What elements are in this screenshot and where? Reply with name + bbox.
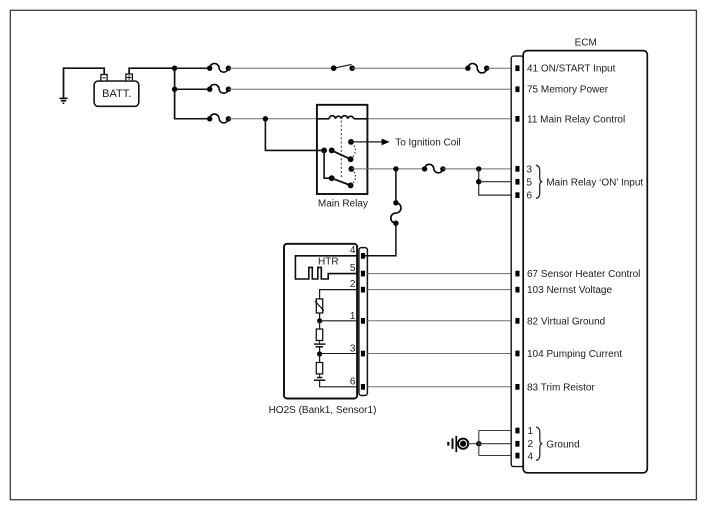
ECM box bbox=[523, 51, 647, 473]
resistor R3 bbox=[316, 354, 322, 374]
resistor R2 bbox=[316, 321, 322, 341]
relay contact pivot node B1 bbox=[329, 148, 335, 154]
svg-text:82 Virtual Ground: 82 Virtual Ground bbox=[527, 316, 605, 327]
svg-text:5: 5 bbox=[527, 177, 533, 188]
relay switch S2 blade bbox=[332, 178, 351, 185]
relay armature dashed link bbox=[340, 121, 342, 178]
wire HO2S pin 3 to ECM pin 104 bbox=[367, 353, 516, 355]
node D relay output junction bbox=[393, 166, 398, 171]
cell B2 plates bbox=[314, 374, 326, 380]
relay switch S2 dashed travel arc bbox=[351, 169, 356, 186]
svg-text:67 Sensor Heater Control: 67 Sensor Heater Control bbox=[527, 269, 640, 280]
svg-text:BATT.: BATT. bbox=[102, 88, 131, 100]
svg-text:1: 1 bbox=[350, 311, 356, 322]
wire ignition switch to fuse F4 bbox=[352, 67, 468, 69]
wire node F to ECM pin 5 bbox=[479, 181, 517, 183]
relay contact common node A1 bbox=[321, 148, 327, 154]
HO2S pin numbers bbox=[350, 245, 356, 388]
svg-text:1: 1 bbox=[528, 426, 534, 437]
svg-text:2: 2 bbox=[528, 439, 534, 450]
wire node D down to fuse F6 bbox=[395, 169, 397, 203]
fuse F4 bbox=[465, 63, 489, 72]
fuse F2 bbox=[207, 84, 231, 93]
wire ground to ECM pin 4 bbox=[479, 455, 517, 457]
wire relay output to fuse F5 bbox=[351, 168, 424, 170]
wire contact D1 to arrow bbox=[351, 141, 382, 143]
node B bbox=[172, 87, 177, 92]
svg-text:To Ignition Coil: To Ignition Coil bbox=[395, 138, 461, 149]
battery BATT. bbox=[94, 74, 139, 106]
HO2S pin squares bbox=[361, 253, 365, 390]
wire relay coil to ECM pin 11 bbox=[367, 118, 516, 120]
fuse F5 bbox=[422, 164, 446, 173]
wire HO2S pin 5 to ECM pin 67 bbox=[367, 273, 516, 275]
svg-text:6: 6 bbox=[527, 191, 533, 202]
svg-text:HO2S (Bank1, Sensor1): HO2S (Bank1, Sensor1) bbox=[269, 405, 377, 416]
relay contact node D1 to ignition coil bbox=[348, 139, 354, 145]
wire fuse F1 to ignition switch bbox=[228, 67, 333, 69]
relay switch S2 pivot node E1 bbox=[329, 175, 335, 181]
svg-text:41 ON/START Input: 41 ON/START Input bbox=[527, 64, 616, 75]
svg-text:11 Main Relay Control: 11 Main Relay Control bbox=[527, 114, 625, 125]
ground (battery negative) bbox=[60, 98, 68, 103]
wire thermistor to node G bbox=[319, 313, 321, 321]
node H pin3 junction bbox=[317, 351, 322, 356]
node C coil feed junction bbox=[263, 116, 268, 121]
svg-text:3: 3 bbox=[527, 164, 533, 175]
arrow to ignition coil bbox=[382, 139, 390, 146]
svg-text:104 Pumping Current: 104 Pumping Current bbox=[527, 349, 622, 360]
wire common to lower switch pivot bbox=[324, 150, 332, 178]
svg-text:5: 5 bbox=[350, 263, 356, 274]
bus wire from node A down to row 3 bbox=[174, 68, 176, 119]
node F pin5 junction bbox=[476, 179, 481, 184]
wire fuse F3 to main relay coil bbox=[228, 118, 317, 120]
wire battery negative terminal to ground bbox=[64, 68, 105, 98]
node E pin3/5/6 junction bbox=[476, 166, 481, 171]
fuse F3 bbox=[207, 114, 231, 123]
relay switch S1 dashed travel arc bbox=[351, 142, 356, 159]
node A bbox=[172, 66, 177, 71]
wire HO2S pin 6 to ECM pin 83 bbox=[367, 386, 516, 388]
heater element HTR bbox=[295, 256, 357, 279]
HO2S connector strip bbox=[359, 248, 368, 396]
wire ground bus vertical bbox=[478, 431, 480, 456]
cell B1 plates bbox=[314, 341, 326, 347]
wire node E down to pin 6 row bbox=[479, 169, 517, 195]
wire battery positive terminal to node A bbox=[129, 68, 175, 74]
brace pins 1/2/4 bbox=[536, 427, 542, 460]
svg-text:2: 2 bbox=[350, 279, 356, 290]
wire HO2S pin 2 to ECM pin 103 bbox=[367, 289, 516, 291]
relay switch S2 blade tip node bbox=[348, 183, 354, 189]
wire fuse F2 to ECM pin 75 bbox=[228, 88, 516, 90]
wire fuse F6 to HO2S pin 4 bbox=[364, 223, 396, 256]
relay switch S1 blade tip node bbox=[348, 156, 354, 162]
wire ground to ECM pin 1 bbox=[479, 430, 517, 432]
node G pin1 junction bbox=[317, 318, 322, 323]
wire row1 node A to fuse F1 bbox=[175, 67, 210, 69]
wire fuse F5 to ECM pin 3 bbox=[443, 168, 517, 170]
relay switch S1 blade bbox=[332, 150, 351, 159]
svg-text:Main Relay: Main Relay bbox=[318, 198, 368, 209]
wire ground symbol to node J bbox=[468, 443, 479, 445]
wire row3 bus corner to fuse F3 bbox=[174, 118, 210, 120]
ECM pin squares bbox=[515, 65, 519, 458]
fuse F1 bbox=[207, 63, 231, 72]
wire HO2S pin 2 to sensor chain bbox=[320, 290, 357, 299]
svg-text:4: 4 bbox=[528, 451, 534, 462]
svg-text:6: 6 bbox=[350, 376, 356, 387]
svg-text:103 Nernst Voltage: 103 Nernst Voltage bbox=[527, 285, 612, 296]
wire node H to HO2S pin 3 bbox=[320, 353, 357, 355]
thermistor sensor cell R1 bbox=[315, 299, 324, 313]
svg-text:3: 3 bbox=[350, 344, 356, 355]
node J ground junction bbox=[476, 441, 481, 446]
svg-text:Ground: Ground bbox=[546, 439, 579, 450]
svg-text:HTR: HTR bbox=[318, 257, 339, 268]
brace pins 3/5/6 bbox=[536, 165, 542, 198]
svg-text:75 Memory Power: 75 Memory Power bbox=[527, 85, 609, 96]
main relay box bbox=[317, 105, 368, 194]
svg-text:ECM: ECM bbox=[575, 37, 597, 48]
chassis ground symbol bbox=[448, 436, 468, 452]
wire row2 node B to fuse F2 bbox=[175, 88, 210, 90]
svg-text:4: 4 bbox=[350, 245, 356, 256]
svg-text:83 Trim Reistor: 83 Trim Reistor bbox=[527, 382, 595, 393]
wire cell B1 to node H bbox=[319, 347, 321, 354]
fuse F6 bbox=[391, 200, 401, 226]
wire ground to ECM pin 2 bbox=[479, 443, 517, 445]
ignition switch bbox=[331, 64, 355, 71]
wire cell B2 to HO2S pin 6 bbox=[320, 380, 357, 387]
svg-text:Main Relay ‘ON’ Input: Main Relay ‘ON’ Input bbox=[546, 177, 643, 188]
wire node C to relay contact common bbox=[265, 119, 324, 151]
HO2S sensor box bbox=[284, 244, 357, 399]
relay coil L1 bbox=[317, 116, 368, 119]
wire node G to HO2S pin 1 bbox=[320, 320, 357, 322]
wire HO2S pin 1 to ECM pin 82 bbox=[367, 320, 516, 322]
relay contact node G1 relay output bbox=[349, 166, 355, 172]
ECM connector strip bbox=[511, 56, 524, 467]
wire fuse F4 to ECM pin 41 bbox=[487, 67, 517, 69]
